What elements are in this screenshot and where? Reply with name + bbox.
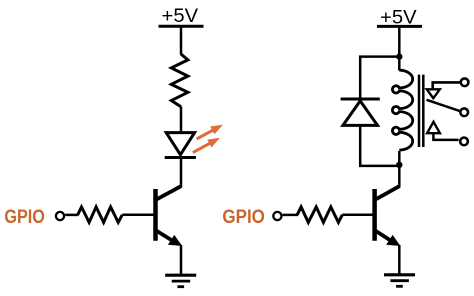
relay NC terminal circle xyxy=(461,78,469,86)
wire top junction to diode branch xyxy=(360,57,399,98)
transistor Q2 collector lead xyxy=(375,186,399,200)
relay NO contact triangle xyxy=(427,122,440,133)
diode D2 cathode bar (flyback) xyxy=(341,97,380,100)
junction dot (top) xyxy=(396,53,402,59)
transistor Q1 emitter arrowhead xyxy=(168,235,182,246)
junction dot (bottom) xyxy=(396,162,402,168)
transistor Q2 emitter lead xyxy=(375,231,392,242)
relay core lines xyxy=(418,75,421,147)
relay NO terminal circle xyxy=(460,138,468,146)
wire base resistor to Q1 base xyxy=(122,214,153,217)
LED D1 anode triangle xyxy=(166,133,194,155)
transistor Q2 base bar xyxy=(372,189,377,241)
svg-text:+5V: +5V xyxy=(162,5,199,27)
ground (right) xyxy=(384,275,415,287)
wire resistor to LED xyxy=(180,107,183,135)
LED D1 cathode bar xyxy=(165,156,196,159)
wire coil to collector xyxy=(398,151,401,188)
ground (left) xyxy=(165,275,196,287)
transistor Q2 emitter arrowhead xyxy=(386,235,400,246)
wire LED to collector xyxy=(180,158,183,188)
wire rail to resistor R1 xyxy=(180,26,183,54)
wire rail to top junction and coil xyxy=(398,26,401,70)
wire emitter to ground xyxy=(180,245,183,276)
wire diode to bottom junction xyxy=(360,125,399,165)
+5V rail (left) xyxy=(159,25,204,28)
wire emitter to ground (right) xyxy=(398,245,401,275)
wire terminal to base resistor (right) xyxy=(283,214,298,217)
wire base resistor to Q2 base xyxy=(342,214,372,217)
transistor Q1 base bar xyxy=(153,189,158,241)
svg-text:GPIO: GPIO xyxy=(4,206,44,228)
transistor Q1 emitter lead xyxy=(156,231,174,242)
relay NO contact wire xyxy=(433,133,458,140)
relay wiper arm xyxy=(427,100,460,111)
resistor R3 (base resistor, horizontal) xyxy=(297,207,342,223)
resistor R2 (base resistor, horizontal) xyxy=(78,207,123,223)
relay NC contact triangle xyxy=(427,89,440,98)
relay coil L1 xyxy=(392,70,412,150)
resistor R1 (LED current limiter, vertical) xyxy=(171,54,188,107)
+5V rail (right) xyxy=(377,25,422,28)
diode D2 triangle xyxy=(343,101,378,126)
relay common terminal circle xyxy=(460,108,468,116)
input terminal (left) xyxy=(56,212,64,220)
relay NC contact wire xyxy=(433,82,460,88)
transistor Q1 collector lead xyxy=(156,186,181,200)
LED light arrow (lower) xyxy=(193,138,220,153)
LED light arrow (upper) xyxy=(197,125,223,139)
input terminal (right) xyxy=(273,212,281,220)
wire terminal to base resistor xyxy=(65,214,78,217)
svg-text:GPIO: GPIO xyxy=(222,206,265,228)
